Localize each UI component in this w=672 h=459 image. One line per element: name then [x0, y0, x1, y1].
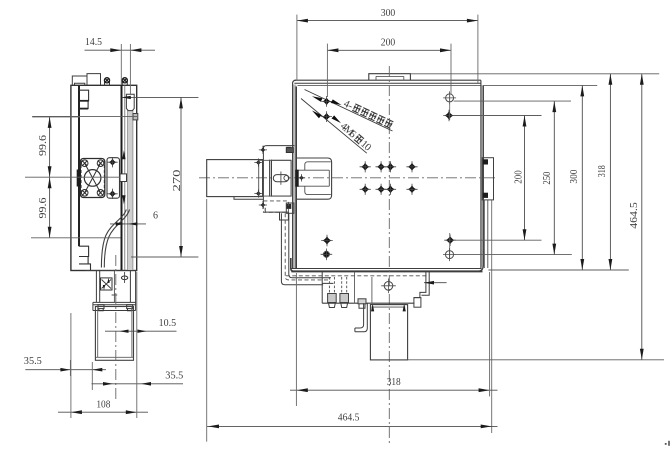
- bolt foot right: [127, 305, 133, 311]
- page artifact dot bottom-right: [665, 443, 667, 445]
- plate bottom-left thick corner: [291, 258, 294, 271]
- coupling cover inner top: [305, 162, 331, 170]
- right dim 464.5 line and arrows: [641, 74, 643, 360]
- motor mount plate edge-on: [107, 158, 120, 199]
- plate top edge lines: [294, 79, 481, 81]
- plate right edge lines: [480, 80, 482, 268]
- right dim 250 line and arrows: [553, 101, 555, 255]
- plate horizontal centerline: [199, 177, 497, 179]
- motor bottom shelf line: [234, 197, 263, 200]
- ext line 250 bottom: [454, 254, 572, 256]
- left view centerline vertical: [115, 255, 117, 401]
- bolt foot left: [98, 305, 104, 311]
- plate left edge gray band: [293, 85, 296, 269]
- coupling diamond marker: [299, 175, 304, 180]
- top dim 200 extension lines: [326, 44, 328, 97]
- bottom bracket circle cross: [384, 282, 393, 291]
- carriage small part lines: [112, 271, 118, 303]
- rail belt arrow down: [122, 195, 125, 204]
- bottom measured line with up arrows: [371, 306, 405, 308]
- bottom bracket right foot: [414, 298, 421, 308]
- ext line 200 bottom: [453, 239, 542, 241]
- bottom leg tube outer: [355, 303, 364, 328]
- cable curve outer: [104, 210, 129, 268]
- dim 108 line and arrows: [58, 411, 148, 413]
- svg-text:464.5: 464.5: [628, 202, 640, 229]
- right dim 300 line and arrows: [581, 85, 583, 270]
- dim 99.6 extension line bottom: [31, 237, 121, 239]
- center hole pattern stars: [361, 163, 369, 171]
- countersunk hole top-left 1: [323, 98, 331, 106]
- svg-text:35.5: 35.5: [165, 370, 183, 382]
- plate left edge lines: [292, 84, 294, 269]
- hanging block inner lines: [95, 307, 133, 358]
- coupling cover mid band: [297, 170, 330, 186]
- svg-text:300: 300: [381, 7, 396, 19]
- motor flange corner screw bottom-right: [97, 190, 104, 197]
- 464.5 right extension line: [491, 201, 493, 434]
- left view top-left step cutout: [79, 90, 89, 108]
- cable curve inner: [101, 210, 126, 268]
- leader text 1: 4-Chinese screw countersink note: [342, 99, 394, 131]
- dim 35.5 left line and arrows: [25, 369, 106, 371]
- side bracket wrap line 2: [289, 213, 331, 278]
- countersunk hole top-left 2: [323, 113, 331, 121]
- mount plate star top: [109, 159, 116, 166]
- svg-text:318: 318: [596, 165, 608, 177]
- motor flange lines: [263, 146, 271, 208]
- dim 99.6 extension line top: [32, 116, 80, 118]
- svg-text:99.6: 99.6: [37, 197, 49, 219]
- bottom dim 464.5 line and arrows: [207, 425, 498, 427]
- motor below solid bracket: [265, 208, 288, 220]
- carriage plate lines: [93, 302, 136, 310]
- left edge small tab top: [286, 148, 293, 153]
- carriage screw oval: [121, 276, 127, 280]
- dim 35.5 right line and arrows: [92, 383, 184, 385]
- svg-text:250: 250: [541, 171, 553, 184]
- left view top screw 2: [122, 81, 127, 86]
- hanging block outer: [95, 307, 133, 361]
- left view bottom-left step cutout: [79, 246, 91, 270]
- motor body rect: [207, 160, 263, 197]
- left view body outline: [71, 85, 137, 270]
- left view inner wall thick line: [78, 86, 80, 247]
- dim 270 extension bottom: [131, 256, 198, 258]
- motor shaft bar: [77, 170, 80, 186]
- bottom dim 318 extension lines: [295, 273, 297, 406]
- motor slot oval: [273, 175, 288, 182]
- left view top screw 1: [105, 81, 110, 86]
- motor mount plate rect: [271, 160, 291, 196]
- left edge small tab bottom: [286, 203, 294, 213]
- side bracket wrap dashed: [285, 213, 331, 280]
- svg-text:10.5: 10.5: [159, 317, 177, 329]
- hole bottom-left star 2: [322, 250, 330, 258]
- top dim 300 line and arrows: [297, 20, 478, 22]
- plate bottom edge lines: [292, 268, 482, 270]
- coupling cover inner bottom: [305, 186, 331, 194]
- right rail black square bottom: [483, 193, 488, 198]
- left view top bump 1: [72, 76, 87, 85]
- motor below dashed box: [263, 201, 288, 212]
- motor flange corner screw top-right: [97, 160, 104, 167]
- coupling notch on rail: [120, 174, 127, 182]
- 464.5 vertical bottom extension line: [408, 359, 664, 361]
- motor flange dashed bolt square: [80, 160, 82, 196]
- svg-text:464.5: 464.5: [338, 412, 360, 424]
- hole link vertical line: [449, 94, 451, 120]
- rail inner thin line: [124, 85, 126, 270]
- right rail lines below: [483, 200, 485, 268]
- bottom bracket hex bolt left: [358, 299, 366, 304]
- bottom bracket screw 1: [329, 277, 334, 294]
- svg-text:6: 6: [153, 210, 158, 221]
- bottom dim 318 line and arrows: [290, 389, 498, 391]
- dim 6 line and arrows: [110, 223, 146, 225]
- right rail bracket rect: [482, 158, 493, 200]
- mount plate star bottom: [109, 190, 116, 197]
- hole bottom-left star 1: [323, 236, 331, 244]
- hole top-right circle: [446, 94, 454, 102]
- svg-text:108: 108: [96, 399, 110, 411]
- motor tick marks: [260, 147, 265, 152]
- svg-text:200: 200: [381, 37, 396, 49]
- plate right edge gray band: [481, 85, 483, 267]
- carriage outline below body: [85, 271, 135, 311]
- leader text 2: 4-M6 depth 10: [338, 121, 373, 154]
- bottom foot rect: [370, 305, 407, 360]
- side bracket wrap line 1: [281, 213, 323, 285]
- svg-text:200: 200: [512, 170, 524, 184]
- leader line 2: [301, 99, 367, 154]
- dim 35.5 left extension lines: [69, 360, 71, 376]
- motor flange center circle: [84, 170, 101, 187]
- left view top bump 2: [87, 74, 101, 86]
- coupling cover outline: [297, 158, 332, 199]
- plate vertical centerline: [388, 66, 390, 443]
- dim 14.5 line and arrows: [85, 49, 156, 51]
- dim 270 line and arrows: [180, 97, 182, 257]
- bottom leg tube inner: [355, 303, 367, 332]
- hole bottom-right star: [446, 236, 454, 244]
- ext line 250 top: [454, 100, 571, 102]
- leader line 1: [305, 90, 393, 132]
- rail thick line: [121, 85, 123, 270]
- rail top bracket: [126, 94, 134, 110]
- bottom bracket right leader arrow: [424, 282, 447, 284]
- motor flange outline: [80, 159, 104, 198]
- dim 99.6 line and arrows: [49, 117, 51, 238]
- bottom bracket screw 2: [342, 277, 347, 294]
- bottom bracket right staircase: [414, 272, 429, 298]
- dim 10.5 line and arrows: [105, 330, 177, 332]
- svg-text:35.5: 35.5: [24, 355, 42, 367]
- hole bottom-right circle: [446, 251, 454, 259]
- carriage connector box: [101, 278, 113, 290]
- hole top-right star: [445, 111, 453, 119]
- rail gray strip: [128, 95, 133, 271]
- right rail black square top: [483, 159, 488, 164]
- top tab inner lines: [376, 76, 404, 80]
- rail belt arrow up: [122, 150, 125, 159]
- ext line 300-318 bottom: [488, 269, 628, 271]
- motor bracket top: [263, 146, 294, 149]
- svg-text:14.5: 14.5: [85, 36, 102, 48]
- svg-text:99.6: 99.6: [37, 134, 49, 156]
- cross line y116: [32, 115, 137, 117]
- bottom bracket top-left notch: [322, 272, 333, 304]
- bottom dim 464.5 left extension line: [206, 199, 208, 442]
- motor flange X diagonals: [85, 163, 101, 193]
- motor flange corner screw top-left: [81, 160, 88, 167]
- left edge small circle: [284, 175, 289, 180]
- dim 99.6 extension line middle / motor centerline: [25, 176, 121, 178]
- bottom bracket bottom edge: [322, 302, 414, 304]
- coupling black bar: [296, 170, 299, 186]
- motor flange corner screw bottom-left: [81, 190, 88, 197]
- bottom bracket inner verticals: [355, 272, 372, 304]
- svg-text:300: 300: [568, 169, 580, 183]
- dim 270 extension top with arrow: [122, 96, 199, 98]
- motor cap line: [258, 162, 260, 196]
- dim 14.5 extension lines: [120, 44, 122, 85]
- right edge screw block: [133, 114, 138, 120]
- svg-text:318: 318: [387, 376, 401, 388]
- top dim 200 line and arrows: [327, 49, 451, 51]
- top dim 300 extension lines: [296, 15, 298, 80]
- dim 108 extension lines: [70, 313, 72, 418]
- bottom bracket dashed line: [286, 275, 427, 277]
- tab top extension line: [410, 73, 659, 75]
- right dim 200 line and arrows: [524, 116, 526, 241]
- top tab outer: [369, 74, 411, 81]
- ext line 200 top: [453, 115, 542, 117]
- right dim 318 line and arrows: [609, 74, 611, 270]
